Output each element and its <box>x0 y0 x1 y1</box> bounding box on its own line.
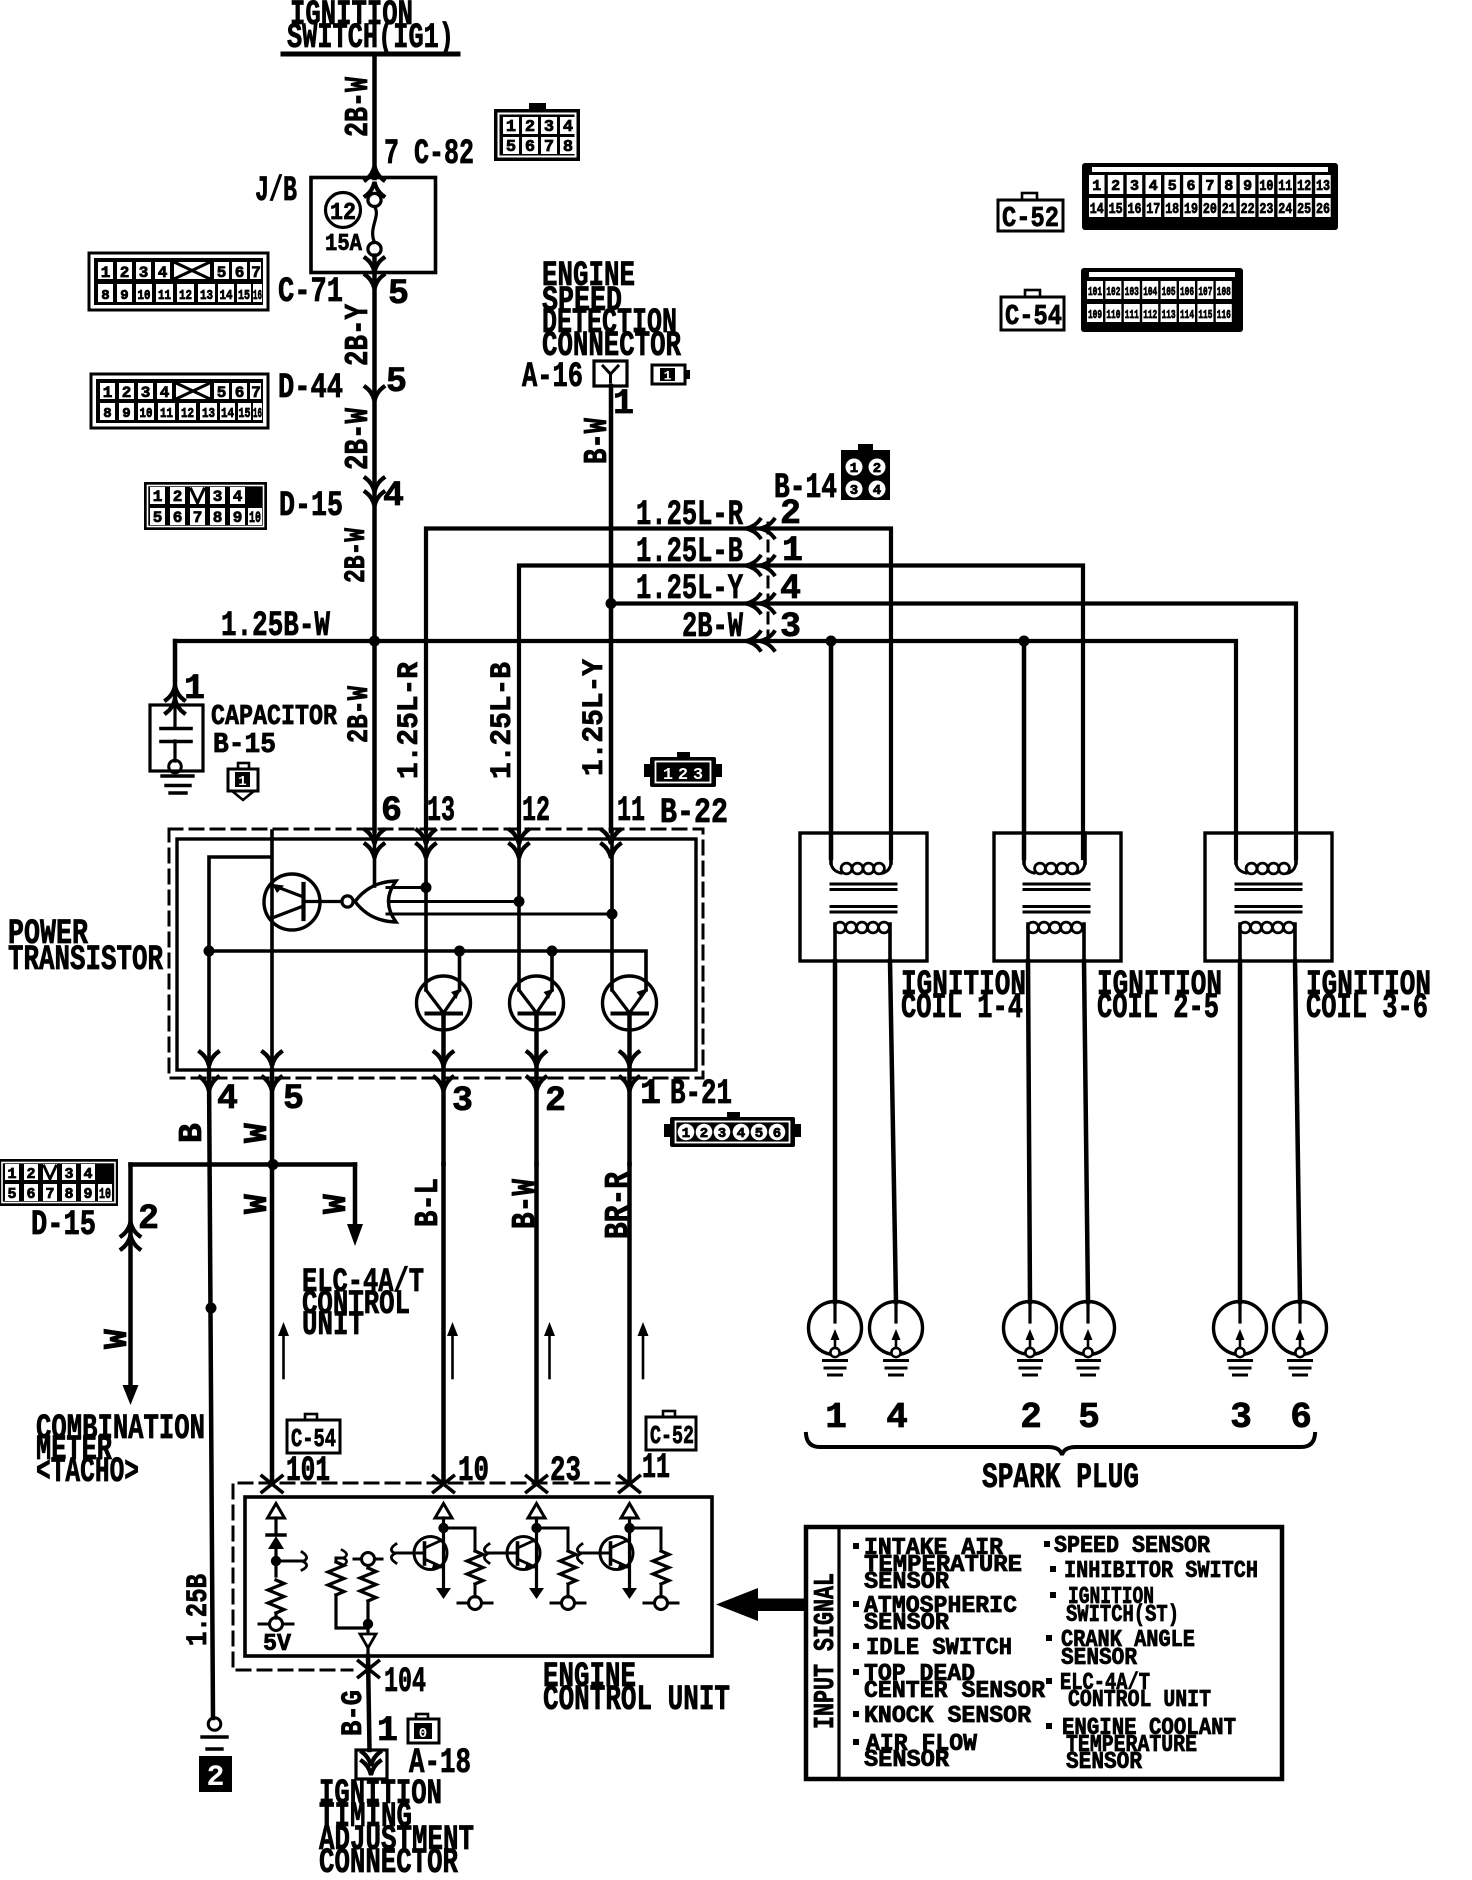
svg-text:3: 3 <box>64 1166 73 1183</box>
svg-text:5: 5 <box>1168 178 1177 195</box>
svg-text:SENSOR: SENSOR <box>1066 1749 1143 1776</box>
svg-text:15: 15 <box>239 406 251 422</box>
arrow to ELC-4A/T <box>347 1224 363 1246</box>
terminal box with arrow A-18 <box>356 1750 387 1779</box>
svg-text:8: 8 <box>103 406 111 422</box>
svg-text:115: 115 <box>1198 308 1212 322</box>
wire BR-R down to ECU <box>627 1164 632 1481</box>
wire 1.25L-Y down to power transistor pin 11 <box>609 604 614 832</box>
svg-text:B-W: B-W <box>579 418 616 464</box>
svg-text:1: 1 <box>1092 178 1101 195</box>
svg-text:D-15: D-15 <box>279 486 343 526</box>
wire coil2 to spark plug 5 <box>1084 961 1088 1302</box>
svg-text:A-16: A-16 <box>522 357 583 397</box>
connector D-15 lower <box>0 1159 118 1206</box>
svg-text:9: 9 <box>83 1186 92 1203</box>
svg-text:B-21: B-21 <box>670 1074 732 1114</box>
wire B-W down to ECU <box>534 1164 539 1482</box>
svg-text:101: 101 <box>1088 285 1102 299</box>
junction dot on B wire <box>206 1303 217 1314</box>
svg-text:1: 1 <box>663 766 673 785</box>
transistor Q3 NPN <box>510 976 564 1030</box>
svg-text:1: 1 <box>613 384 634 424</box>
connector C-82 icon <box>494 103 580 161</box>
svg-text:W: W <box>239 1194 276 1214</box>
svg-text:1.25L-Y: 1.25L-Y <box>636 569 743 609</box>
svg-text:4: 4 <box>160 384 170 402</box>
svg-text:J/B: J/B <box>255 171 297 211</box>
transistor Q2 NPN <box>417 976 471 1030</box>
svg-text:1: 1 <box>825 1397 847 1438</box>
wire rail drop to T2 <box>550 951 554 990</box>
capacitor B-15 <box>150 705 203 773</box>
svg-text:3: 3 <box>1130 178 1139 195</box>
connector C-54 label box <box>1001 290 1064 333</box>
svg-text:11: 11 <box>160 406 173 422</box>
svg-text:4: 4 <box>1149 178 1158 195</box>
connector C-71 <box>89 253 268 310</box>
svg-text:1: 1 <box>103 384 113 402</box>
ECU dashed boundary <box>233 1483 630 1670</box>
svg-text:109: 109 <box>1088 308 1102 322</box>
svg-text:2: 2 <box>173 488 183 506</box>
connector C-52 label box <box>998 193 1063 235</box>
svg-text:5: 5 <box>217 264 227 282</box>
svg-text:102: 102 <box>1106 285 1120 299</box>
wire branch to ELC-4A/T <box>353 1165 358 1229</box>
wire pin11 down to transistor3 <box>610 831 614 990</box>
ECU divider resistors <box>328 1550 382 1656</box>
svg-text:11: 11 <box>158 288 171 304</box>
svg-text:3: 3 <box>693 766 703 785</box>
svg-text:23: 23 <box>550 1451 581 1491</box>
svg-text:3: 3 <box>141 384 151 402</box>
connector icon below B-15 <box>228 763 258 800</box>
svg-text:1.25B-W: 1.25B-W <box>221 606 330 646</box>
svg-text:5: 5 <box>7 1186 16 1203</box>
node boxed 2 ground reference <box>199 1756 232 1795</box>
power transistor solid box <box>177 839 696 1070</box>
svg-text:6: 6 <box>773 1126 781 1142</box>
svg-text:106: 106 <box>1180 285 1194 299</box>
wire rail drop to T1 <box>458 951 462 990</box>
svg-text:TRANSISTOR: TRANSISTOR <box>8 940 163 980</box>
svg-text:2B-W: 2B-W <box>343 686 377 743</box>
svg-text:15: 15 <box>238 288 250 304</box>
svg-text:10: 10 <box>99 1186 111 1203</box>
svg-text:1: 1 <box>184 669 205 709</box>
svg-text:1: 1 <box>153 488 163 506</box>
svg-text:C-54: C-54 <box>291 1424 336 1454</box>
svg-text:CONTROL UNIT: CONTROL UNIT <box>1068 1687 1211 1714</box>
divider line input signal <box>837 1527 840 1779</box>
spark plug 2 <box>1004 1302 1057 1376</box>
svg-text:13: 13 <box>427 791 455 831</box>
svg-text:9: 9 <box>122 406 130 422</box>
svg-text:19: 19 <box>1184 201 1198 218</box>
svg-text:2: 2 <box>120 264 130 282</box>
connector B-14 icon <box>841 444 890 500</box>
ground terminal of B wire <box>208 1718 221 1731</box>
svg-text:11: 11 <box>1278 178 1292 195</box>
ECU 5V reference circuit <box>259 1504 307 1659</box>
svg-text:10: 10 <box>140 406 153 422</box>
svg-text:23: 23 <box>1259 201 1273 218</box>
wire coil1 to spark plug 1 <box>833 961 838 1302</box>
svg-text:0: 0 <box>419 1726 427 1742</box>
svg-text:112: 112 <box>1143 308 1157 322</box>
svg-text:3: 3 <box>452 1081 473 1121</box>
label IGNITION TIMING ADJUSTMENT CONNECTOR <box>319 1774 474 1880</box>
fuse 12 15A symbol <box>325 193 381 273</box>
svg-text:2: 2 <box>545 1081 566 1121</box>
svg-text:5: 5 <box>388 274 409 314</box>
svg-text:4: 4 <box>873 483 881 499</box>
junction dot rail T1 <box>454 946 465 957</box>
svg-text:CONTROL UNIT: CONTROL UNIT <box>543 1680 730 1720</box>
transistor Q1 PNP <box>264 874 342 930</box>
svg-text:2: 2 <box>1111 178 1120 195</box>
svg-text:3: 3 <box>213 488 223 506</box>
svg-text:2: 2 <box>700 1126 708 1142</box>
svg-text:5: 5 <box>755 1126 763 1142</box>
svg-text:2: 2 <box>26 1166 35 1183</box>
junction dot rail left <box>204 946 215 957</box>
svg-text:SENSOR: SENSOR <box>864 1747 950 1774</box>
svg-text:6: 6 <box>525 138 535 157</box>
connector B-21 icon <box>664 1112 801 1147</box>
svg-text:14: 14 <box>1090 201 1104 218</box>
svg-text:8: 8 <box>1224 178 1233 195</box>
svg-text:14: 14 <box>221 406 234 422</box>
svg-text:7: 7 <box>1205 178 1214 195</box>
svg-text:111: 111 <box>1125 308 1139 322</box>
svg-text:9: 9 <box>233 509 243 527</box>
svg-text:6: 6 <box>381 791 402 831</box>
svg-text:4: 4 <box>886 1397 908 1438</box>
direction arrow on wire 101 <box>278 1322 289 1378</box>
svg-text:24: 24 <box>1278 201 1292 218</box>
ignition coil 1-4 box <box>800 833 927 961</box>
svg-text:COIL 3-6: COIL 3-6 <box>1306 988 1428 1028</box>
svg-text:114: 114 <box>1180 308 1194 322</box>
svg-text:SPARK PLUG: SPARK PLUG <box>982 1458 1139 1498</box>
svg-text:INPUT SIGNAL: INPUT SIGNAL <box>809 1573 842 1729</box>
wire drop to coil 2 primary left <box>1022 641 1027 858</box>
svg-text:14: 14 <box>220 288 233 304</box>
connector C-54 small icon <box>287 1414 340 1454</box>
node IGNITION SWITCH (IG1) title <box>283 0 458 58</box>
svg-text:COIL 2-5: COIL 2-5 <box>1097 988 1219 1028</box>
wire Q3 output <box>534 1014 539 1165</box>
svg-text:5: 5 <box>283 1079 304 1119</box>
svg-text:B-15: B-15 <box>213 728 276 761</box>
wire pin6 feed to gate <box>373 831 377 886</box>
svg-text:C-71: C-71 <box>278 272 343 312</box>
svg-text:6: 6 <box>235 384 245 402</box>
spark plug 4 <box>870 1302 923 1376</box>
svg-text:10: 10 <box>138 288 151 304</box>
svg-text:6: 6 <box>173 509 183 527</box>
wire coil3 to spark plug 3 <box>1238 961 1243 1302</box>
svg-text:D-15: D-15 <box>31 1205 96 1245</box>
wire arrows at D-15 <box>366 478 384 492</box>
svg-text:7: 7 <box>251 384 261 402</box>
svg-text:2B-W: 2B-W <box>682 607 743 647</box>
svg-text:2B-W: 2B-W <box>340 408 377 470</box>
direction arrow on wire 23 <box>544 1322 555 1378</box>
svg-text:<TACHO>: <TACHO> <box>36 1452 139 1492</box>
wire arrows leaving power transistor <box>200 1052 218 1066</box>
svg-text:4: 4 <box>233 488 243 506</box>
svg-text:22: 22 <box>1241 201 1255 218</box>
svg-text:11: 11 <box>642 1448 670 1488</box>
wire 104 out of ECU <box>368 1656 370 1750</box>
wire 1.25L-Y horizontal <box>611 604 1296 859</box>
svg-text:D-44: D-44 <box>278 368 343 408</box>
direction arrow on wire 10 <box>447 1322 458 1378</box>
wire Q4 output <box>627 1014 632 1165</box>
junction dot W branch <box>268 1159 279 1170</box>
capacitor B-15 branch wire <box>173 641 178 705</box>
connector C-52 pinout <box>1082 163 1338 230</box>
wire branch to D-15 pin2 and combination meter <box>128 1165 133 1391</box>
svg-text:13: 13 <box>200 288 213 304</box>
wire pin12 down to transistor2 <box>517 831 521 990</box>
svg-text:B: B <box>174 1123 211 1143</box>
wire coil2 to spark plug 2 <box>1028 961 1030 1302</box>
svg-text:16: 16 <box>1128 201 1142 218</box>
junction dot coil1 feed <box>826 636 837 647</box>
wire 2B-W trunk to power transistor pin 6 <box>372 641 377 831</box>
svg-text:IDLE SWITCH: IDLE SWITCH <box>866 1635 1012 1662</box>
svg-text:101: 101 <box>286 1451 330 1491</box>
svg-text:C-52: C-52 <box>1002 202 1059 235</box>
svg-text:105: 105 <box>1162 285 1176 299</box>
wire B-L down to ECU <box>441 1164 446 1482</box>
wire drop to coil 1 primary left <box>829 641 834 858</box>
svg-text:2: 2 <box>138 1199 159 1239</box>
label ELC-4A/T CONTROL UNIT <box>302 1264 424 1345</box>
svg-text:10: 10 <box>458 1451 489 1491</box>
svg-text:7: 7 <box>251 264 261 282</box>
wire 1.25L-R horizontal <box>426 529 891 859</box>
svg-text:10: 10 <box>249 509 261 527</box>
svg-text:5: 5 <box>506 138 516 157</box>
spark plug 1 <box>809 1302 862 1376</box>
svg-text:2B-W: 2B-W <box>340 77 377 137</box>
svg-text:110: 110 <box>1106 308 1120 322</box>
node spark plug numbers <box>825 1397 1312 1438</box>
svg-text:113: 113 <box>1162 308 1176 322</box>
spark plug 6 <box>1274 1302 1327 1376</box>
svg-text:13: 13 <box>202 406 215 422</box>
svg-text:COIL 1-4: COIL 1-4 <box>901 988 1023 1028</box>
direction arrow on wire 11 <box>638 1322 649 1378</box>
connector C-54 pinout <box>1081 268 1243 332</box>
svg-text:2B-Y: 2B-Y <box>340 304 377 366</box>
connector icon A-18 <box>408 1714 439 1743</box>
junction dot gate to pin12 wire <box>514 896 525 907</box>
input signal bullet list right <box>1044 1533 1258 1776</box>
svg-text:3: 3 <box>544 118 554 137</box>
junction dot rail T2 <box>547 946 558 957</box>
svg-text:C-54: C-54 <box>1005 300 1062 333</box>
junction dot B-W / 1.25L-Y <box>606 598 617 609</box>
junction dot main trunk at 1.25B-W <box>369 636 380 647</box>
wire exit J/B with arrows <box>366 258 384 272</box>
svg-text:11: 11 <box>617 791 645 831</box>
input signal box <box>806 1527 1282 1779</box>
svg-text:1: 1 <box>640 1074 661 1114</box>
node ENGINE SPEED DETECTION CONNECTOR title <box>542 256 681 366</box>
wire pin4 down <box>207 951 211 1070</box>
svg-text:2: 2 <box>206 1761 224 1795</box>
svg-text:6: 6 <box>26 1186 35 1203</box>
junction dot gate to pin13 wire <box>421 882 432 893</box>
svg-text:1: 1 <box>101 264 111 282</box>
svg-text:6: 6 <box>1186 178 1195 195</box>
wire B pin4 down to ground <box>209 1070 213 1718</box>
wire Q2 output <box>441 1014 446 1165</box>
svg-text:107: 107 <box>1198 285 1212 299</box>
svg-text:3: 3 <box>718 1126 726 1142</box>
svg-text:W: W <box>318 1194 355 1214</box>
svg-text:12: 12 <box>179 288 192 304</box>
wire top-left collector loop <box>209 831 272 1070</box>
svg-text:1: 1 <box>664 369 672 384</box>
wire pin13 down to transistor1 <box>424 831 428 990</box>
svg-text:3: 3 <box>1230 1397 1252 1438</box>
junction dot coil2 feed <box>1019 636 1030 647</box>
svg-text:6: 6 <box>1290 1397 1312 1438</box>
connector D-15 upper <box>144 482 267 530</box>
wire 1.25L-B horizontal <box>519 566 1083 859</box>
svg-text:12: 12 <box>330 200 356 227</box>
svg-text:CENTER SENSOR: CENTER SENSOR <box>864 1678 1046 1705</box>
svg-text:1: 1 <box>850 461 858 477</box>
svg-text:1: 1 <box>377 1711 398 1751</box>
svg-text:2: 2 <box>678 766 688 785</box>
svg-text:SENSOR: SENSOR <box>864 1569 950 1596</box>
emitter rail wire <box>209 951 646 990</box>
junction block J/B box <box>311 178 436 273</box>
svg-text:1: 1 <box>7 1166 16 1183</box>
arrows into B-14 <box>760 520 774 538</box>
svg-text:6: 6 <box>235 264 245 282</box>
svg-text:3: 3 <box>780 607 801 647</box>
wire arrows entering power transistor <box>366 830 384 844</box>
svg-text:1: 1 <box>506 118 516 137</box>
svg-text:1.25L-B: 1.25L-B <box>486 662 520 779</box>
svg-text:4: 4 <box>217 1079 238 1119</box>
arrow from input signal box to ECU <box>716 1588 807 1621</box>
svg-text:8: 8 <box>563 138 573 157</box>
svg-text:5: 5 <box>217 384 227 402</box>
svg-text:108: 108 <box>1217 285 1231 299</box>
svg-text:1: 1 <box>682 1126 690 1142</box>
svg-text:2: 2 <box>525 118 535 137</box>
wire W horizontal branch <box>131 1162 356 1167</box>
wire coil3 to spark plug 6 <box>1295 961 1300 1302</box>
svg-text:3: 3 <box>850 483 858 499</box>
svg-text:8: 8 <box>213 509 223 527</box>
svg-text:20: 20 <box>1203 201 1217 218</box>
svg-text:5: 5 <box>1078 1397 1100 1438</box>
svg-text:INHIBITOR SWITCH: INHIBITOR SWITCH <box>1064 1558 1258 1585</box>
input signal bullet list left <box>853 1535 1046 1774</box>
svg-text:4: 4 <box>563 118 573 137</box>
arrow to combination meter <box>123 1385 139 1405</box>
svg-text:5: 5 <box>153 509 163 527</box>
svg-text:16: 16 <box>253 406 262 422</box>
wire B-W from A-16 <box>609 386 614 604</box>
wire W pin5 down to ECU <box>270 1070 275 1481</box>
svg-text:4: 4 <box>780 569 801 609</box>
spark plug 3 <box>1214 1302 1267 1376</box>
svg-text:9: 9 <box>1243 178 1252 195</box>
svg-text:15: 15 <box>1109 201 1123 218</box>
connector D-44 <box>91 374 268 428</box>
label COMBINATION METER TACHO <box>36 1409 205 1492</box>
svg-text:KNOCK SENSOR: KNOCK SENSOR <box>864 1703 1032 1730</box>
wire arrow at D-44 <box>366 387 384 401</box>
ignition coil 3-6 box <box>1205 833 1332 961</box>
svg-text:B-14: B-14 <box>774 468 837 508</box>
svg-text:4: 4 <box>383 476 404 516</box>
brace spark plug group <box>806 1434 1315 1455</box>
svg-text:12: 12 <box>1297 178 1311 195</box>
svg-text:UNIT: UNIT <box>302 1307 364 1345</box>
svg-text:17: 17 <box>1146 201 1160 218</box>
ground below capacitor <box>162 776 193 793</box>
svg-text:SWITCH(ST): SWITCH(ST) <box>1066 1602 1179 1629</box>
svg-text:C-52: C-52 <box>650 1421 694 1451</box>
svg-text:4: 4 <box>158 264 168 282</box>
logic gate NOR <box>342 881 612 922</box>
svg-text:8: 8 <box>101 288 109 304</box>
svg-text:16: 16 <box>253 288 262 304</box>
spark plug 5 <box>1062 1302 1115 1376</box>
svg-text:1.25L-Y: 1.25L-Y <box>578 659 612 776</box>
svg-text:2: 2 <box>873 461 881 477</box>
svg-text:1: 1 <box>238 774 246 790</box>
svg-text:21: 21 <box>1222 201 1236 218</box>
svg-text:103: 103 <box>1125 285 1139 299</box>
svg-text:7: 7 <box>193 509 203 527</box>
svg-text:2: 2 <box>1020 1397 1042 1438</box>
ECU solid box <box>245 1497 712 1656</box>
junction dot gate to pin11 wire <box>607 909 618 920</box>
svg-text:SENSOR: SENSOR <box>864 1610 950 1637</box>
svg-text:12: 12 <box>181 406 194 422</box>
svg-text:5V: 5V <box>263 1631 292 1658</box>
svg-text:1.25L-R: 1.25L-R <box>393 662 427 779</box>
svg-text:15A: 15A <box>325 231 363 258</box>
svg-text:10: 10 <box>1259 178 1273 195</box>
connector A-16 Y-box <box>594 361 627 386</box>
wire 2B-W from ignition switch to J/B <box>372 54 377 178</box>
wire arrow into J/B <box>366 166 384 180</box>
connector icon beside A-16 <box>652 365 690 384</box>
ignition coil 2-5 box <box>994 833 1121 961</box>
svg-text:18: 18 <box>1165 201 1179 218</box>
svg-text:104: 104 <box>384 1662 426 1702</box>
svg-text:104: 104 <box>1143 285 1157 299</box>
svg-text:1.25L-R: 1.25L-R <box>636 495 743 535</box>
arrows entering ECU <box>262 1476 282 1492</box>
power transistor dashed box <box>169 829 703 1078</box>
